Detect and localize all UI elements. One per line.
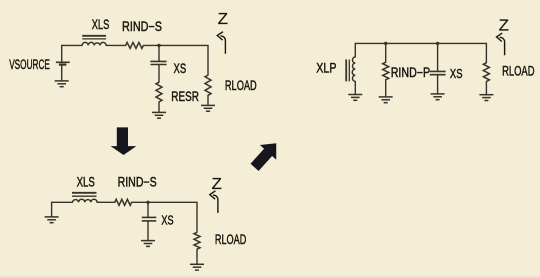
capacitor XS plates — [150, 61, 166, 64]
ground under RLOAD (bottom) — [190, 264, 204, 270]
big arrow down (series to simplified) — [111, 127, 137, 155]
svg-text:RESR: RESR — [171, 89, 199, 104]
svg-text:XS: XS — [174, 61, 187, 76]
ground under RLOAD (right) — [479, 95, 493, 101]
ground under VSOURCE — [55, 81, 69, 87]
wire RIND-P stem — [385, 43, 387, 62]
resistor RLOAD (top-left) — [205, 75, 211, 95]
wire RESR to ground — [158, 102, 160, 113]
page bottom edge shade — [0, 276, 540, 278]
svg-text:XLP: XLP — [316, 60, 336, 75]
inductor XLS coil (bottom) — [73, 199, 98, 202]
ground left (bottom) — [45, 217, 59, 223]
inductor XLS coil — [82, 42, 106, 45]
svg-text:XS: XS — [450, 67, 463, 81]
svg-text:XLS: XLS — [77, 175, 95, 190]
svg-text:Z: Z — [499, 18, 510, 35]
resistor RIND-S — [126, 42, 144, 48]
capacitor XS plates (bottom) — [142, 217, 157, 221]
node junction dot (RIND-P) — [384, 42, 387, 45]
wire resistor to RLOAD corner (bottom) — [132, 202, 197, 232]
resistor RIND-S (bottom) — [115, 199, 132, 205]
wire top bus (right circuit) — [355, 43, 486, 62]
svg-text:RIND−P: RIND−P — [391, 65, 431, 80]
svg-text:RLOAD: RLOAD — [225, 78, 257, 93]
wire XS cap to RESR — [158, 65, 160, 83]
wire RLOAD to ground (right) — [485, 82, 487, 95]
wire battery to ground — [61, 65, 63, 81]
ground under XS (bottom) — [141, 241, 155, 247]
inductor XLP core lines — [346, 60, 349, 82]
wire RLOAD to ground (bottom) — [196, 249, 198, 264]
inductor XLP coil — [352, 57, 355, 82]
node junction dot (XS right) — [436, 42, 439, 45]
ground under XS (right) — [431, 94, 445, 100]
svg-text:XLS: XLS — [92, 17, 110, 32]
source VSOURCE battery — [56, 62, 70, 64]
wire XS cap to ground (bottom) — [147, 221, 149, 240]
wire left ground lead — [52, 202, 73, 217]
inductor XLS core lines — [82, 36, 106, 39]
svg-text:RIND−S: RIND−S — [122, 19, 162, 34]
svg-text:XS: XS — [161, 214, 173, 228]
wire RLOAD to ground — [207, 95, 209, 105]
node junction dot (bottom) — [146, 201, 149, 204]
wire inductor to resistor — [106, 44, 126, 46]
resistor RIND-P — [383, 62, 389, 80]
inductor XLS core lines (bottom) — [72, 193, 97, 196]
impedance arrow Z (right) — [497, 33, 505, 55]
wire inductor to resistor (bottom) — [97, 201, 115, 203]
wire XS cap stem (right) — [437, 43, 439, 71]
wire XS cap to ground (right) — [437, 75, 439, 94]
svg-text:Z: Z — [218, 11, 229, 28]
svg-text:Z: Z — [212, 176, 223, 193]
node junction dot — [157, 44, 160, 47]
ground under XLP — [348, 95, 362, 101]
svg-text:RLOAD: RLOAD — [215, 232, 247, 247]
wire VSOURCE top lead — [62, 45, 82, 61]
capacitor XS plates (right) — [430, 71, 446, 74]
resistor RLOAD (bottom) — [194, 232, 200, 249]
big arrow diagonal (to parallel equivalent) — [246, 136, 284, 175]
wire resistor to RLOAD corner — [143, 45, 208, 75]
wire XS cap stem (bottom) — [147, 202, 149, 217]
svg-text:VSOURCE: VSOURCE — [9, 57, 50, 72]
svg-text:RIND−S: RIND−S — [118, 175, 157, 190]
ground under RLOAD (top-left) — [201, 105, 215, 111]
wire RIND-P to ground — [385, 80, 387, 97]
resistor RLOAD (right) — [483, 63, 489, 82]
resistor RESR — [156, 82, 162, 102]
svg-text:RLOAD: RLOAD — [502, 64, 535, 79]
impedance arrow Z (bottom) — [210, 191, 218, 213]
wire XS cap stem top — [158, 45, 160, 61]
ground under RESR — [152, 112, 166, 118]
ground under RIND-P — [379, 97, 393, 103]
impedance arrow Z (top-left) — [217, 32, 225, 54]
wire XLP to ground — [354, 81, 356, 94]
